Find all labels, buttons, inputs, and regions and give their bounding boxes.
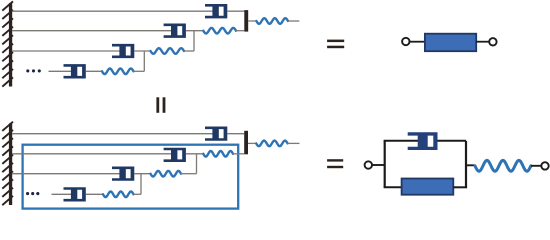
terminal circle (top equivalent, left) xyxy=(402,38,409,45)
terminal circle (bottom equivalent, right) xyxy=(541,162,548,169)
wire rail2 D2 to S2 xyxy=(186,30,203,32)
rotated equals sign between ladders xyxy=(156,97,165,113)
wire b rail3 D3 to S3 xyxy=(134,173,150,175)
spring S0' (bottom ladder output) xyxy=(256,141,287,147)
wire parallel loop right branch xyxy=(465,141,467,188)
terminal circle (top equivalent, right) xyxy=(489,38,496,45)
wire b S2 to bar xyxy=(233,153,244,155)
wire riser stage4 to rail3 junction xyxy=(143,51,145,71)
wire b S3 to riser xyxy=(181,173,197,175)
wire S3 to riser xyxy=(184,50,194,52)
dashpot D1 (top ladder row1) xyxy=(205,4,227,18)
wire b riser stage3 to rail2 junction xyxy=(196,154,198,174)
wire riser stage3 to rail2 junction xyxy=(193,31,195,51)
wire S4 to riser xyxy=(134,70,145,72)
wire loop to big spring lead xyxy=(466,164,475,166)
wire parallel loop top wire right xyxy=(438,140,467,142)
wire parallel loop top wire left xyxy=(384,140,419,142)
terminal circle (bottom equivalent, left) xyxy=(365,161,372,168)
wire b rail1 wall to D1 xyxy=(12,133,216,135)
wire b rail4 dots to D4 xyxy=(52,193,75,195)
dashpot D3 (top ladder row3) xyxy=(112,44,134,58)
wire bottom equiv left lead xyxy=(372,164,385,166)
wire rail2 wall to D2 xyxy=(12,30,174,32)
wire parallel loop left branch xyxy=(384,141,386,188)
rigid bar (top ladder) xyxy=(244,10,248,32)
ellipsis dots (top ladder row4) xyxy=(26,69,41,72)
wire b rail1 D1 to bar xyxy=(227,133,244,135)
dashpot D1' (bottom ladder row1) xyxy=(205,127,227,141)
ellipsis dots (bottom ladder row4) xyxy=(26,192,39,195)
wire b S0 to end xyxy=(288,142,300,144)
wire top equiv right lead xyxy=(476,41,489,43)
spring S4' (bottom ladder row4) xyxy=(103,192,134,198)
equals sign (bottom) xyxy=(327,159,343,168)
highlight box (bottom ladder sub-structure) xyxy=(23,145,239,209)
spring S3 (top ladder row3) xyxy=(151,48,185,54)
wire S2 to bar xyxy=(236,30,244,32)
spring S4 (top ladder row4) xyxy=(102,69,134,75)
wire S0 to end xyxy=(288,20,299,22)
wall top ladder (fixed support) xyxy=(2,1,13,86)
wire b bar to S0 xyxy=(248,142,256,144)
wall bottom ladder (fixed support) xyxy=(2,122,13,205)
spring (bottom equivalent, series) xyxy=(475,160,531,171)
wire rail3 D3 to S3 xyxy=(134,50,150,52)
wire b rail4 D4 to S4 xyxy=(86,193,103,195)
dashpot large dashpot (bottom equivalent) xyxy=(408,132,438,150)
rigid bar (bottom ladder) xyxy=(244,131,248,155)
wire b riser stage4 to rail3 junction xyxy=(140,174,142,195)
wire rail4 dots to D4 xyxy=(49,70,75,72)
wire b rail3 wall to D3 xyxy=(12,173,123,175)
dashpot D2 (top ladder row2) xyxy=(164,24,186,38)
wire rail1 D1 to bar xyxy=(227,10,244,12)
dashpot D3' (bottom ladder row3) xyxy=(112,167,134,181)
wire parallel loop bottom wire right xyxy=(453,186,467,188)
wire b S4 to riser xyxy=(134,193,142,195)
wire top equiv left lead xyxy=(410,41,425,43)
spring S2' (bottom ladder row2) xyxy=(203,151,233,157)
wire b rail2 wall to D2 xyxy=(12,153,174,155)
spring S0 (top ladder output) xyxy=(256,18,288,24)
wire rail1 wall to D1 xyxy=(12,10,216,12)
spring S3' (bottom ladder row3) xyxy=(151,171,182,177)
dashpot D2' (bottom ladder row2) xyxy=(164,148,186,162)
dashpot D4 (top ladder row4) xyxy=(64,64,86,78)
equivalent element box (bottom) xyxy=(402,179,454,195)
equivalent element box (top) xyxy=(425,34,476,52)
wire b rail2 D2 to S2 xyxy=(186,153,203,155)
wire rail3 wall to D3 xyxy=(12,50,123,52)
wire big spring to terminal lead xyxy=(531,165,541,167)
wire rail4 D4 to S4 xyxy=(86,70,102,72)
equals sign (top) xyxy=(327,40,344,49)
wire bar to S0 xyxy=(248,20,256,22)
spring S2 (top ladder row2) xyxy=(203,28,236,34)
dashpot D4' (bottom ladder row4) xyxy=(64,187,86,201)
wire parallel loop bottom wire left xyxy=(384,186,402,188)
